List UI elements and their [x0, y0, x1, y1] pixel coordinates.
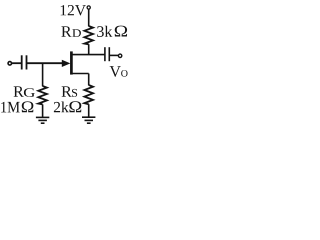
terminal input: [8, 62, 12, 66]
ground (RG): [36, 116, 49, 118]
label 3kΩ: [97, 26, 104, 37]
wire drain node horizontal: [71, 54, 105, 56]
label 1MΩ: [1, 102, 6, 113]
capacitor C2 plate 1: [104, 47, 106, 61]
label 12V: [61, 5, 66, 15]
wire RG to ground: [42, 104, 44, 117]
wire VDD to RD: [88, 9, 90, 26]
wire C2 to output terminal: [109, 54, 118, 56]
resistor RD: [84, 26, 93, 44]
wire RS to ground: [88, 104, 90, 117]
capacitor C1 plate 1: [21, 55, 23, 69]
resistor RS: [84, 85, 93, 104]
transistor Q1 channel bar: [70, 51, 73, 74]
capacitor C1 plate 2: [26, 55, 28, 69]
wire junction drop to RG: [42, 63, 44, 86]
label RD: [61, 26, 71, 36]
resistor RG: [38, 86, 47, 104]
label 2kΩ: [54, 102, 60, 112]
terminal Vo: [118, 54, 121, 57]
wire source horizontal: [71, 73, 88, 75]
capacitor C2 plate 2: [108, 47, 110, 61]
label Rs: [62, 86, 72, 96]
wire source to RS: [88, 74, 90, 86]
label RG: [14, 86, 24, 96]
ground (RS): [82, 116, 95, 118]
wire RD to drain node: [88, 44, 90, 54]
wire gate: [27, 62, 64, 64]
label Vo: [110, 66, 121, 77]
transistor Q1 gate arrow: [62, 60, 71, 67]
terminal VDD: [87, 6, 90, 9]
wire input to C1: [12, 62, 22, 64]
